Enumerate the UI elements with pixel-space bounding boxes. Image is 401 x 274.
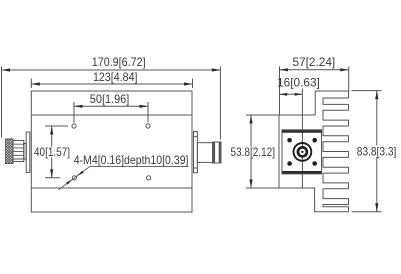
left connector barrel — [13, 141, 24, 162]
connector centerline — [301, 89, 303, 189]
flange bolt hole bottom-right — [312, 161, 317, 166]
left connector neck — [24, 144, 26, 160]
svg-text:83.8[3.3]: 83.8[3.3] — [357, 145, 397, 159]
dim 16 line — [280, 93, 303, 95]
flange thick top edge — [282, 130, 322, 133]
svg-text:57[2.24]: 57[2.24] — [293, 55, 336, 69]
dim 53.8 line — [250, 115, 252, 188]
arrow 16 left — [280, 93, 288, 96]
body upper face line — [31, 114, 192, 116]
flange plate outline — [282, 130, 322, 174]
arrow 53.8 bottom — [249, 180, 252, 189]
flange bolt hole bottom-left — [287, 161, 292, 166]
mounting hole bottom-right — [147, 176, 151, 180]
arrow 40 bottom — [50, 169, 53, 178]
dim 57 / 16 shared extension line left — [279, 67, 281, 115]
mounting hole top-right — [146, 124, 150, 128]
svg-text:53.8[2.12]: 53.8[2.12] — [231, 145, 276, 159]
text mask 40 — [32, 147, 71, 158]
dim 40 line — [51, 126, 53, 178]
flange bolt hole top-right — [312, 138, 317, 143]
arrow 123 right — [184, 82, 193, 85]
svg-text:50[1.96]: 50[1.96] — [90, 92, 130, 106]
flange thick bottom edge — [282, 171, 322, 174]
arrow 16 right — [295, 93, 303, 96]
arrow 83.8 top — [375, 91, 378, 100]
right connector flange — [194, 132, 198, 173]
leader arrow lower — [66, 179, 72, 184]
arrow 50 left — [74, 105, 83, 108]
arrow 57 right — [340, 68, 349, 71]
dim 123 line — [31, 83, 192, 85]
dim 50 line — [74, 105, 148, 107]
flange bolt hole top-left — [287, 138, 292, 143]
callout underline 4-M4 — [90, 165, 189, 167]
connector center pin — [301, 151, 303, 153]
leader arrow upper — [77, 171, 83, 176]
arrow 170.9 right — [212, 68, 221, 71]
dim 83.8 extension lines — [352, 91, 382, 212]
dim 40 extension ticks — [45, 126, 68, 178]
dim 170.9 line — [2, 69, 221, 71]
left connector knurled nut — [6, 139, 13, 164]
svg-text:123[4.84]: 123[4.84] — [93, 70, 138, 84]
dim 83.8 line — [376, 91, 378, 212]
arrow 53.8 top — [249, 115, 252, 124]
dim 53.8 extension lines — [246, 115, 280, 188]
svg-text:4-M4[0.16]depth10[0.39]: 4-M4[0.16]depth10[0.39] — [74, 153, 189, 167]
dim 170.9 extension lines — [2, 67, 221, 140]
right connector coupling ring — [213, 142, 221, 163]
connector inner thick ring — [298, 147, 307, 156]
arrow 83.8 bottom — [375, 203, 378, 212]
connector outer ring — [294, 143, 312, 161]
mounting hole top-left — [72, 124, 76, 128]
right connector barrel — [197, 143, 212, 163]
svg-text:16[0.63]: 16[0.63] — [277, 75, 320, 89]
dim 57 extension line right — [348, 67, 350, 92]
body lower face line — [31, 187, 192, 189]
arrow 50 right — [140, 105, 149, 108]
arrow 123 left — [31, 82, 40, 85]
right view body end face — [279, 115, 315, 188]
dim 50 extension lines — [74, 102, 148, 123]
arrow 57 left — [280, 68, 289, 71]
callout leader line — [59, 166, 90, 189]
arrow 170.9 left — [2, 68, 11, 71]
svg-text:170.9[6.72]: 170.9[6.72] — [92, 55, 146, 69]
text mask 83.8 — [356, 146, 397, 158]
left connector flange — [26, 132, 30, 173]
left view body outline — [31, 91, 192, 212]
text mask 53.8 — [230, 147, 276, 158]
heatsink fin profile — [315, 91, 349, 212]
mounting hole bottom-left — [72, 176, 76, 180]
svg-text:40[1.57]: 40[1.57] — [34, 145, 70, 159]
arrow 40 top — [50, 126, 53, 135]
dim 57 line — [280, 69, 349, 71]
dim 123 extension ticks — [31, 79, 192, 89]
